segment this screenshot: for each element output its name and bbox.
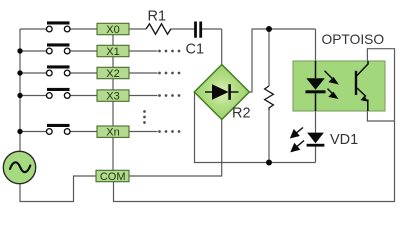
svg-text:VD1: VD1 xyxy=(330,132,358,148)
svg-text:OPTOISO: OPTOISO xyxy=(322,32,385,47)
svg-text:C1: C1 xyxy=(186,42,205,58)
svg-text:X0: X0 xyxy=(106,24,119,36)
svg-text:COM: COM xyxy=(100,171,126,183)
svg-text:R2: R2 xyxy=(232,106,251,122)
svg-text:X1: X1 xyxy=(106,46,119,58)
svg-text:X3: X3 xyxy=(106,91,119,103)
svg-text:R1: R1 xyxy=(148,9,167,25)
svg-text:Xn: Xn xyxy=(106,127,119,139)
svg-text:X2: X2 xyxy=(106,68,119,80)
